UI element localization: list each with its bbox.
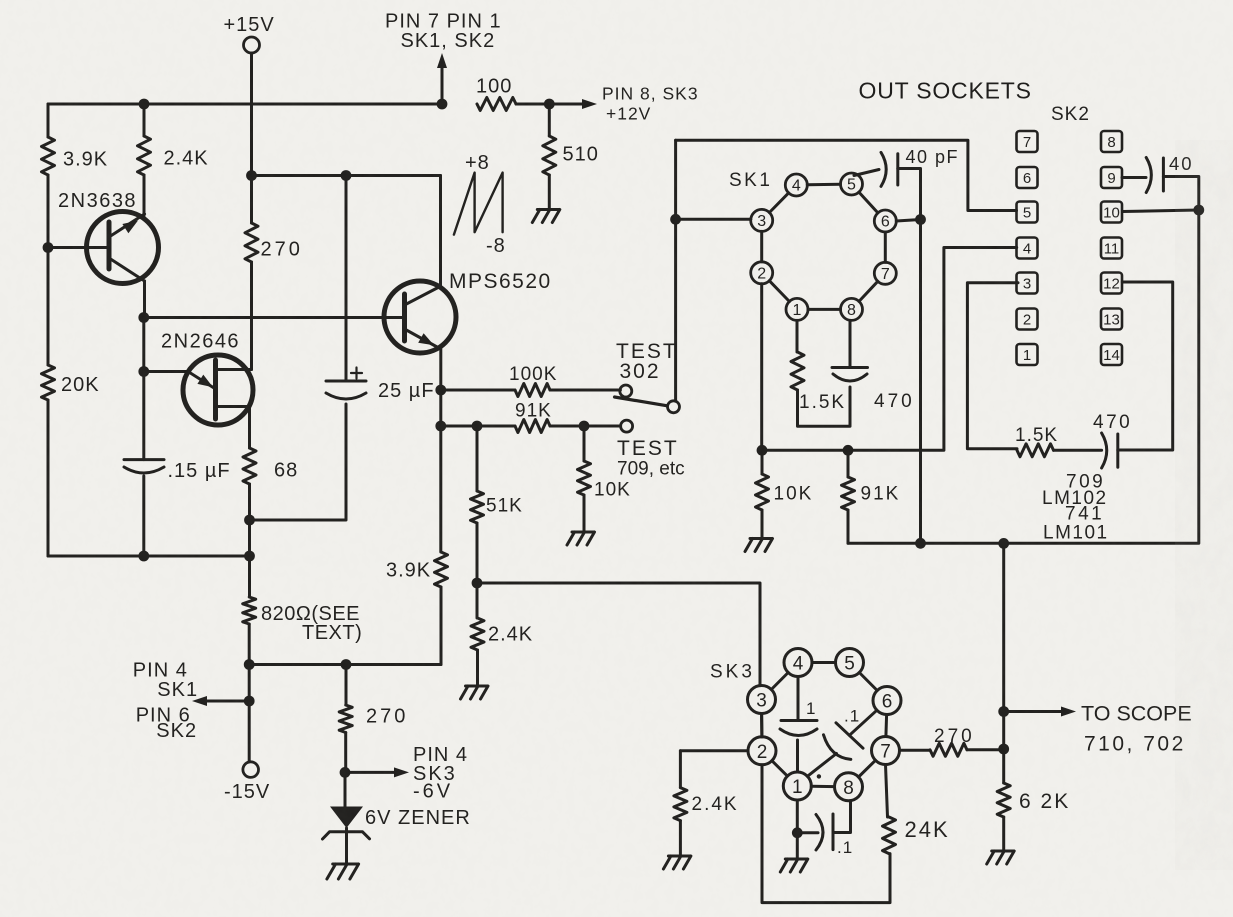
node junction (920.5,219.5) (915, 214, 926, 225)
transistor Q3 emitter arrow (418, 333, 434, 345)
wire SK3 ring link 8-1 (811, 785, 834, 788)
node junction (1003.7,711.5) (998, 706, 1009, 717)
resistor 68 (243, 448, 256, 484)
capacitor C2 25uF curved plate (326, 393, 366, 399)
node junction (797.3,832.8) (792, 827, 803, 838)
diode zener triangle (330, 807, 363, 829)
capacitor .1 (vertical) top plate (781, 719, 817, 722)
wire UJT emitter row y=371.5 (144, 370, 188, 373)
transistor Q2 emitter lead (188, 372, 214, 389)
node junction (143.8,371.5) (138, 366, 149, 377)
capacitor .1 (diagonal) lead1 (849, 710, 877, 735)
resistor 2.4K (x=144) (138, 136, 151, 175)
node junction (143.8,556) (138, 551, 149, 562)
resistor 10K (x=584) (578, 461, 591, 495)
transistor Q3 bar (402, 294, 407, 341)
wire TO SCOPE arrow (1004, 710, 1063, 713)
transistor Q3 MPS6520 body circle (384, 281, 456, 353)
node junction (1003.7,543.4) (998, 538, 1009, 549)
socket SK1 pin 2 circle (751, 262, 773, 284)
wire 510 to ground (548, 175, 551, 210)
socket SK3 pin 8 circle (835, 773, 863, 801)
socket SK1 pin 8 circle (841, 298, 863, 320)
wire y=583 long to SK3 (477, 583, 760, 686)
wire scope to 270 node (1002, 712, 1005, 750)
capacitor C1 .15uF top plate (124, 458, 164, 461)
socket SK2 pin 9 box (1101, 167, 1122, 188)
resistor 1.5K (SK1) (791, 352, 804, 390)
wire up-arrow stem PIN7 (441, 67, 444, 104)
node junction (584,426) (579, 421, 590, 432)
wire 470 to pin8 (849, 320, 852, 367)
socket SK1 pin 3 circle (751, 209, 773, 231)
capacitor 40 (SK2) curved plate (1146, 158, 1151, 193)
wire 2.4K (SK3) stem (679, 751, 682, 788)
wire y=450.3 row (762, 248, 1017, 451)
socket SK3 pin 7 circle (872, 737, 900, 765)
wire SK3 pin2 left stub (680, 749, 748, 752)
node junction (477,426) (472, 421, 483, 432)
wire SK1 pin2 down (760, 284, 763, 451)
node junction (477,583) (472, 578, 483, 589)
socket SK2 pin 13 box (1101, 309, 1122, 330)
wire SK3 pin7 right stub (900, 749, 931, 752)
wire x=144 from rail (143, 104, 146, 136)
wire .1 to pin8 (833, 801, 851, 833)
socket SK2 pin 2 box (1017, 309, 1038, 330)
resistor 510 (543, 136, 556, 175)
wire SK3 pin2 down to bottom rail (762, 765, 890, 903)
wire switch common up x=675.6 (674, 140, 677, 401)
capacitor .1 (vertical) lead2 (796, 740, 799, 772)
node junction (346,664.5) (341, 659, 352, 670)
ground symbol (2.4K SK3) (663, 856, 691, 869)
wire 3.9K to y=664.5 (440, 587, 443, 665)
wire x=249 to 820 (248, 556, 251, 597)
arrowhead PIN4 SK1 (192, 696, 207, 706)
resistor 820 ohm (243, 597, 256, 624)
transistor Q2 bar (213, 360, 218, 419)
socket SK2 pin 5 box (1017, 202, 1038, 223)
wire SK3 pin3-pin2 link (760, 714, 763, 737)
transistor Q3 collector lead (405, 287, 441, 306)
wire SK1 ring link 5-6 (859, 192, 878, 213)
diode zener bar (323, 832, 370, 839)
arrowhead TO SCOPE (1061, 707, 1076, 717)
ground symbol (6.2K) (987, 851, 1015, 864)
socket SK2 pin 11 box (1101, 238, 1122, 259)
wire 91K to y=543.3 (847, 510, 850, 543)
wire 100K row right (550, 389, 620, 392)
capacitor .1 (diagonal) curved plate (824, 735, 851, 760)
socket SK1 pin 4 circle (785, 174, 807, 196)
wire SK1 ring link 6-7 (884, 232, 887, 262)
capacitor 470 (SK1) top plate (832, 366, 868, 369)
wire 270b to junction (344, 733, 347, 773)
wire 510 stem (548, 104, 551, 136)
wire 10K (SK1) to ground (761, 510, 764, 539)
socket SK2 pin 6 box (1017, 167, 1038, 188)
wire SK1 pin6 stub (896, 220, 920, 222)
wire 51K to junction y=583 (476, 523, 479, 583)
resistor 270 (x=251.5) (245, 223, 258, 262)
wire base row y=317.5 to Q3 (144, 316, 405, 319)
ground symbol (10K x=584) (567, 532, 595, 545)
resistor 6.2K (997, 783, 1010, 817)
wire 40 to pin10 node (1163, 177, 1198, 210)
socket SK2 pin 1 box (1017, 344, 1038, 365)
resistor 10K (SK1) (756, 474, 769, 510)
wire SK1 ring link 1-2 (769, 281, 789, 302)
node junction (675.6,219.3) (670, 214, 681, 225)
capacitor 40pF bar plate (896, 154, 899, 185)
terminal -15V circle (243, 762, 259, 778)
transistor Q2 emitter arrow (197, 375, 213, 388)
capacitor .1 (bottom) curved plate (816, 815, 823, 851)
transistor Q3 emitter lead (405, 329, 439, 348)
wire 1.5K loop bottom (798, 387, 851, 426)
wire SK3 pin1 down (796, 800, 799, 833)
socket SK2 pin 7 box (1017, 131, 1038, 152)
transistor Q1 base wire (48, 246, 109, 249)
socket SK1 pin 1 circle (786, 298, 808, 320)
wire SK1 ring link 7-8 (859, 281, 878, 301)
wire y=664.5 row (249, 663, 441, 666)
node junction (345,772.4) (340, 767, 351, 778)
node junction (762,450.3) (757, 445, 768, 456)
wire 6.2K stem (1002, 749, 1005, 783)
resistor 2.4K (SK3) (674, 788, 687, 821)
wire UJT B1 down to 68 (248, 407, 251, 449)
node junction (346,175.5) (341, 170, 352, 181)
transistor Q1 emitter lead (109, 214, 145, 237)
node junction (440.8,390) (435, 385, 446, 396)
socket SK2 pin 3 box (1017, 273, 1038, 294)
resistor 20K (42, 365, 55, 400)
wire SK1 pin5 to C40pF (854, 170, 879, 176)
ground symbol (2.4K x=477) (461, 686, 489, 699)
wire 2.4K to Q1 emitter (143, 175, 146, 216)
wire top +15V rail y=104 (48, 103, 442, 106)
node junction (1198.8,210) (1193, 205, 1204, 216)
wire 1.5K to 470 (SK2) (1054, 449, 1102, 452)
wire SK1 pin1 down (796, 320, 799, 352)
socket SK3 pin 6 circle (873, 687, 901, 715)
wire SK3 ring link 5-6 (859, 673, 877, 691)
wire C1 to bottom wire (142, 476, 145, 556)
wire left rail x=48 upper (47, 104, 50, 137)
capacitor .1 (bottom) lead (797, 831, 818, 834)
resistor 2.4K (x=477) (471, 618, 484, 650)
wire SK1 ring link 4-5 (807, 183, 840, 187)
resistor 270 (SK3) (930, 743, 967, 756)
artifact ink dot near SK3 pin1 (817, 774, 821, 778)
wire SK3 ring link 3-4 (771, 673, 788, 690)
node junction (549.3,104) (544, 99, 555, 110)
socket SK1 pin 6 circle (874, 210, 896, 232)
node junction (440.8,426) (435, 421, 446, 432)
switch lever (615, 397, 668, 406)
wire SK1 ring link 2-3 (760, 231, 763, 261)
node junction (848,450.3) (843, 445, 854, 456)
wire SK3 ring link 6-7 (884, 715, 888, 737)
wire 10K stem (SK1) (761, 450, 764, 474)
ground symbol (SK3 pin1) (780, 859, 808, 872)
wire C2 down and left to B1 node (250, 404, 347, 520)
wire x=143.8 between junctions (142, 318, 145, 372)
terminal +15V circle (244, 37, 260, 53)
node junction (920.5,543.3) (915, 538, 926, 549)
wire x=249 to pin4 junction (248, 665, 251, 702)
node junction (143.8,317.5) (138, 312, 149, 323)
wire SK1 ring link 8-1 (808, 308, 841, 311)
node junction (249.2,701) (244, 696, 255, 707)
resistor 51K (471, 491, 484, 523)
capacitor 470 (SK2) curved plate (1102, 433, 1107, 468)
terminal TEST709 contact (621, 420, 633, 432)
wire SK2 pin10 stub (1123, 210, 1199, 212)
socket SK2 pin 10 box (1101, 202, 1122, 223)
capacitor 470 (SK2) bar plate (1116, 434, 1119, 467)
wire x=920.5 down to y=543 (919, 220, 922, 544)
wire Q3 collector up x=440.5 (439, 176, 442, 287)
wire x=440.8 between rows (439, 390, 442, 426)
wire 270b stem (345, 665, 348, 706)
resistor 3.9K (x=441) (435, 552, 448, 587)
wire pin1 to ground (796, 833, 799, 859)
arrowhead PIN7 up (437, 53, 447, 68)
wire 2.4K (SK3) to ground (679, 821, 682, 856)
socket SK2 pin 12 box (1101, 273, 1122, 294)
wire bottom-left y=556 (48, 555, 250, 558)
wire 2.4K stem (x=477) (476, 583, 479, 618)
wire SK1 ring link 3-4 (769, 193, 788, 213)
wire 100K row left (441, 389, 515, 392)
node junction (144,104) (139, 99, 150, 110)
capacitor 40pF curved plate (881, 152, 886, 186)
wire SK2 pin9 to C40 (1122, 176, 1146, 179)
wire SK3 ring link 7-8 (859, 760, 876, 777)
socket SK3 pin 3 circle (748, 686, 776, 714)
wire zener to ground (345, 828, 348, 864)
capacitor 470 (SK1) curved plate (833, 374, 867, 381)
node junction 2N3638 base (48,247.5) (43, 242, 54, 253)
socket SK2 pin 8 box (1101, 131, 1122, 152)
socket SK2 pin 14 box (1101, 344, 1122, 365)
wire to -15V terminal (248, 701, 251, 762)
node junction (249.5,520) (244, 515, 255, 526)
resistor 270 (x=346) (339, 705, 352, 733)
wire x=251.5 to 270 resistor (250, 176, 253, 224)
wire x=440.8 down to 3.9K (439, 426, 442, 552)
resistor 91K (SK1) (842, 477, 855, 510)
transistor Q2 base2 lead (216, 368, 252, 371)
resistor 24K (883, 817, 896, 854)
wire SK2 pin3 chain (967, 283, 1018, 449)
wire 91K stem (SK1) (847, 450, 850, 477)
right margin bleed-through texture (1175, 140, 1233, 870)
arrowhead PIN4 SK3 (394, 767, 409, 777)
wire left rail x=48 lower (47, 400, 50, 556)
ground symbol (zener) (327, 864, 359, 879)
capacitor C2 25uF top plate (326, 380, 366, 383)
transistor Q2 2N2646 body circle (183, 355, 253, 425)
wire 10K to ground (583, 495, 586, 532)
node junction (442,104) (437, 99, 448, 110)
socket SK2 pin 4 box (1017, 238, 1038, 259)
capacitor 40 (SK2) bar plate (1162, 158, 1165, 191)
resistor 100K (515, 384, 550, 397)
wire 6.2K to ground (1002, 817, 1005, 851)
wire left rail x=48 middle (47, 175, 50, 365)
wire 2.4K to ground (476, 650, 479, 686)
transistor Q1 base bar (107, 222, 112, 269)
capacitor .1 (vertical) lead (797, 677, 800, 720)
resistor 100 (top rail) (477, 98, 516, 111)
wire x=143.8 down to C1 (142, 372, 145, 460)
wire scope vertical x=1003.7 (1002, 543, 1005, 711)
wire +15V down (250, 53, 253, 176)
terminal TEST302 contact (620, 385, 632, 397)
transistor Q1 emitter arrow (122, 221, 138, 234)
transistor Q1 2N3638 body circle (87, 212, 159, 284)
capacitor .1 (vertical) curved plate (780, 729, 817, 736)
wire arrow PIN4 SK1 left (206, 700, 249, 703)
wire junction to zener (344, 772, 347, 806)
capacitor .1 (bottom) bar plate (832, 814, 835, 850)
wire y=543.3 row (848, 211, 1199, 544)
wire 51K stem (476, 426, 479, 491)
socket SK3 pin 1 circle (783, 772, 811, 800)
socket SK1 pin 5 circle (841, 173, 863, 195)
resistor 1.5K (SK2) (1017, 444, 1054, 457)
wire 68 to junction (248, 484, 251, 556)
node junction (1003.7,749) (998, 744, 1009, 755)
transistor Q2 base1 lead (216, 405, 250, 408)
wire 24K to pin7 (886, 765, 888, 818)
capacitor C1 .15uF curved plate (124, 467, 164, 473)
socket SK3 pin 2 circle (748, 737, 776, 765)
wire 270 (SK3) to scope node (967, 748, 1004, 751)
wire y=175.5 to Q3 collector (252, 174, 441, 177)
svg-text:OUT SOCKETS: OUT SOCKETS (859, 78, 1032, 104)
waveform sawtooth (454, 173, 503, 235)
wire Q3 emitter down (439, 349, 442, 391)
wire arrow PIN4 SK3 (345, 771, 396, 774)
wire node to arrow PIN8 (549, 103, 584, 106)
socket SK1 pin 7 circle (874, 262, 896, 284)
socket SK3 pin 4 circle (784, 649, 812, 677)
wire SK1 pin3 feed (676, 218, 751, 221)
resistor 3.9K (left rail) (42, 137, 55, 175)
ground symbol (510) (532, 210, 560, 223)
transistor Q1 collector lead (109, 258, 145, 281)
terminal switch common (668, 401, 680, 413)
wire SK3 ring link 1-2 (772, 761, 788, 776)
ground symbol (10K SK1) (745, 539, 773, 552)
node junction (251.5,175.5) (246, 170, 257, 181)
wire switch top across y=140 (676, 140, 1017, 210)
arrowhead PIN8 right (582, 99, 597, 109)
wire 470 to pin12 (1118, 282, 1173, 450)
wire x=346 down to C2 (345, 176, 348, 382)
wire 40pF to x=920.5 (898, 169, 921, 220)
resistor 91K (515, 420, 550, 433)
capacitor .1 (diagonal) lead2 (807, 754, 836, 777)
node junction (249.5,556) (244, 551, 255, 562)
wire SK3 ring link 2-3 (760, 714, 763, 737)
wire 91K row left (441, 425, 515, 428)
node junction (249.2,664.5) (244, 659, 255, 670)
wire SK3 ring link 4-5 (812, 661, 836, 664)
wire 10K stem (x=584) (583, 426, 586, 461)
wire 91K row right (550, 425, 621, 428)
capacitor C2 25uF plus sign (351, 368, 362, 379)
capacitor .1 (diagonal) straight plate (836, 723, 863, 748)
wire 820 to junction y=664.5 (248, 624, 251, 665)
wire 270 to UJT B2 (250, 262, 253, 370)
wire 100 to node (516, 103, 549, 106)
socket SK3 pin 5 circle (836, 649, 864, 677)
wire Q1 collector down x=144 (143, 281, 146, 318)
